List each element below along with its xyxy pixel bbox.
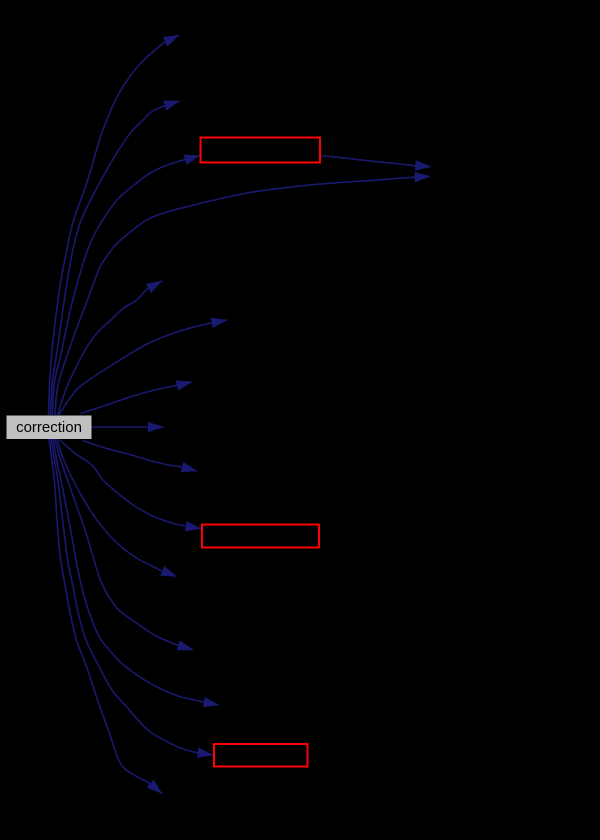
red node R3 (truncated) [214, 744, 308, 767]
edge correction to red node R3 [51, 439, 213, 755]
edge correction to node 8 [92, 426, 164, 428]
red node R1 (truncated) [201, 138, 321, 163]
node correction (current function, grey) [7, 416, 92, 440]
edge R1 to far-right node [321, 156, 430, 167]
svg-text:correction: correction [16, 419, 82, 436]
edge correction to node 11 [57, 439, 177, 577]
edge correction to node 14 [49, 439, 162, 794]
edge correction to node 13 [53, 439, 219, 705]
edge correction to node 6 [59, 320, 227, 415]
edge correction to node 2 [51, 101, 180, 415]
edge correction to node 12 [55, 439, 193, 650]
edge correction to node 5 [58, 281, 163, 415]
edge correction to node 9 [83, 441, 197, 472]
edge correction to node 1 [49, 35, 180, 415]
red node R2 (truncated) [202, 525, 319, 548]
edge correction to red node R2 [60, 440, 202, 529]
edge correction to node 7 [81, 382, 193, 414]
edge correction to far-right node [55, 176, 430, 415]
edge correction to red node R1 [53, 156, 201, 416]
